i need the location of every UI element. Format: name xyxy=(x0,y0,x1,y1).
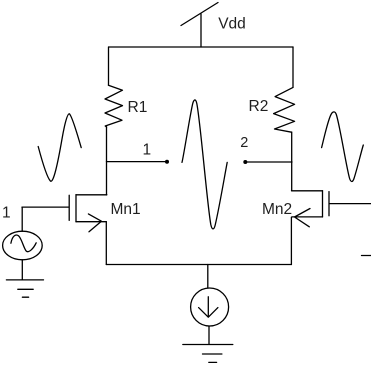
svg-text:2: 2 xyxy=(240,135,248,151)
wire right branch upper xyxy=(292,47,294,87)
ground bottom xyxy=(183,345,233,363)
wire node 2 stub xyxy=(246,161,293,163)
transistor Mn2 xyxy=(291,191,371,265)
waveform sketch right input xyxy=(322,112,364,182)
node 1 junction dot xyxy=(165,160,169,164)
AC source input left xyxy=(3,207,43,280)
power Vdd symbol xyxy=(181,3,218,26)
wire bottom rail xyxy=(106,264,291,266)
resistor R1 xyxy=(105,85,123,127)
svg-text:R2: R2 xyxy=(249,98,269,115)
wire right branch below R2 xyxy=(291,132,293,190)
wire Vdd stem xyxy=(200,14,202,47)
wire left branch below R1 xyxy=(106,127,108,195)
current source I1 xyxy=(191,288,229,326)
svg-text:Mn2: Mn2 xyxy=(262,201,292,218)
waveform sketch left input xyxy=(38,114,81,181)
resistor R2 xyxy=(274,87,295,132)
wire top rail xyxy=(109,46,293,48)
waveform sketch middle output xyxy=(182,100,227,229)
wire node 1 stub xyxy=(107,161,167,163)
node 2 junction dot xyxy=(243,160,247,164)
svg-text:Mn1: Mn1 xyxy=(111,201,141,218)
transistor Mn1 xyxy=(22,195,107,265)
svg-text:1: 1 xyxy=(2,205,11,222)
ground left xyxy=(6,280,43,297)
wire left branch upper xyxy=(108,47,110,85)
svg-text:R1: R1 xyxy=(128,99,148,116)
wire right edge stub xyxy=(362,255,371,257)
wire current source stem xyxy=(207,265,209,288)
svg-text:Vdd: Vdd xyxy=(218,15,246,32)
svg-text:1: 1 xyxy=(143,142,152,159)
wire below current source xyxy=(208,327,210,345)
